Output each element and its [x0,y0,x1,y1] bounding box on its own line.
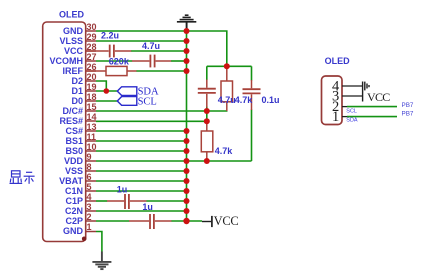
svg-text:BS0: BS0 [65,146,83,156]
pin stubs J1 [86,31,96,232]
pin line 3 [342,95,363,97]
stem cap C2 bottom to rail [206,107,208,112]
svg-text:BS1: BS1 [65,136,83,146]
resistor 4.7k (vertical lower) [201,121,213,161]
svg-text:D2: D2 [71,76,83,86]
svg-text:VSS: VSS [65,166,83,176]
wire IREF pin26 right segment [136,70,186,72]
svg-text:SCL: SCL [138,97,157,108]
connector J2 OLED (4-pin, right) [322,56,414,125]
component body box [43,22,86,242]
svg-text:SCL: SCL [346,108,357,114]
stem cap C4 bottom down to VDD rail [251,110,253,162]
rail top caps [207,65,252,67]
wire VBAT pin6 [96,180,187,182]
svg-text:PB7: PB7 [402,102,414,109]
designator 显示 (hand-drawn strokes) [10,171,35,184]
wire SCL [347,106,397,108]
svg-text:4.7u: 4.7u [142,41,160,51]
svg-text:620k: 620k [109,56,130,66]
wire C2P pin2 segments to VCC port [96,220,129,222]
wire CS# pin13 [96,130,187,132]
svg-text:C2P: C2P [65,216,83,226]
svg-text:CS#: CS# [65,126,83,136]
wire C1P pin4 segments [96,200,107,202]
svg-text:1: 1 [87,222,92,232]
component body box right [322,76,343,125]
capacitor C 0.1u (vertical mid) [243,80,261,110]
svg-text:D1: D1 [71,86,83,96]
resistor 620k (row 26) [86,66,137,75]
wire BS0 pin10 [96,150,187,152]
svg-text:C2N: C2N [65,206,83,216]
pin line 4 [342,85,363,87]
svg-text:PB7: PB7 [402,110,414,117]
svg-text:VDD: VDD [64,156,84,166]
svg-text:GND: GND [63,226,84,236]
capacitor C 4.7u (vertical mid) [198,80,216,108]
svg-text:C1N: C1N [65,186,83,196]
connector J1 OLED (30-pin, left) [43,10,87,242]
svg-text:RES#: RES# [59,116,83,126]
pin stub 1 [342,116,347,118]
wire BS1 pin11 [96,140,187,142]
pin numbers J1 [87,22,97,232]
wire D2 pin20 down to D1 [96,81,106,91]
port SDA [117,87,159,98]
svg-text:0.1u: 0.1u [262,95,280,105]
svg-text:C1P: C1P [65,196,83,206]
svg-text:1u: 1u [117,184,128,194]
svg-text:GND: GND [63,26,84,36]
wire VDD pin9 rail [96,160,252,162]
wire VCC pin28 segments [131,50,187,52]
svg-text:VCC: VCC [214,214,239,228]
wire C2N pin3 [96,210,187,212]
resistor 4.7k (vertical upper) [221,66,233,111]
svg-text:IREF: IREF [62,66,83,76]
svg-text:VLSS: VLSS [59,36,83,46]
stem cap C2 top [206,66,208,80]
link D/C# to RES# verticals [206,111,208,121]
power port VCC (bottom middle) [202,214,238,228]
wire D1 pin19 to SDA port [96,90,117,92]
pin stub 2 [342,106,347,108]
capacitor C 2.2u (row 28) [86,45,132,58]
wire VLSS pin29 [96,40,187,42]
port SCL [117,97,157,108]
wire SDA [347,116,397,118]
wire D0 pin18 to SCL port [96,100,117,102]
ground symbol sideways + VCC bar [363,82,369,102]
wire RES# pin14 rail [96,120,207,122]
wires (green nets) [96,31,252,252]
wire D/C# pin15 rail [96,110,228,112]
corner dot marker [82,237,87,242]
svg-text:OLED: OLED [59,10,85,20]
svg-text:VCC: VCC [64,46,84,56]
wire VSS pin8 [96,170,187,172]
svg-text:4.7k: 4.7k [235,95,254,105]
svg-text:2.2u: 2.2u [101,30,119,40]
svg-text:D0: D0 [71,96,83,106]
svg-text:VBAT: VBAT [59,176,83,186]
ground symbol (bottom left, gray) [92,252,111,270]
wire GND pin1 down [96,232,102,252]
svg-text:1u: 1u [142,202,153,212]
svg-text:D/C#: D/C# [62,106,83,116]
pin numbers 4 3 2 1 [332,78,340,125]
svg-text:4.7u: 4.7u [218,95,236,105]
capacitor C 4.7u (row 27) [132,55,171,68]
wire GND pin30 to bus and branch right [96,31,227,66]
capacitor C 1u (row 2) [129,214,172,229]
svg-text:OLED: OLED [325,56,351,66]
svg-text:VCC: VCC [367,90,390,104]
svg-text:1: 1 [332,109,339,125]
svg-text:4.7k: 4.7k [215,146,234,156]
junction dots [104,28,230,224]
ground bus vertical [186,31,188,221]
wire VCOMH pin27 segments [96,60,132,62]
pin names J1 [50,26,84,236]
svg-text:SDA: SDA [346,118,358,124]
capacitor C 1u (row 4) [107,194,146,209]
svg-text:VCOMH: VCOMH [50,56,84,66]
stem cap C4 top [251,66,253,80]
wire C1N pin5 [96,190,187,192]
ground symbol (top middle) [177,15,196,30]
